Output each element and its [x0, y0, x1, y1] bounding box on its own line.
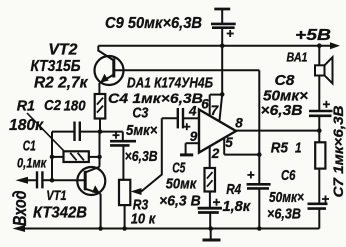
svg-text:КТ315Б: КТ315Б: [31, 58, 81, 75]
svg-text:50мк: 50мк: [166, 177, 197, 193]
svg-text:×6,3В: ×6,3В: [261, 103, 303, 119]
svg-text:С3: С3: [132, 106, 148, 122]
svg-text:R5: R5: [271, 139, 289, 156]
svg-text:R4: R4: [226, 182, 241, 198]
svg-text:0,1мк: 0,1мк: [17, 155, 47, 171]
svg-text:С7 1мк×6,3В: С7 1мк×6,3В: [331, 105, 346, 197]
svg-text:С5: С5: [172, 160, 186, 176]
svg-text:6: 6: [201, 96, 209, 111]
svg-text:VT1: VT1: [46, 187, 66, 203]
svg-text:С2: С2: [44, 97, 62, 114]
svg-text:×6,3В: ×6,3В: [267, 207, 301, 223]
svg-text:+5В: +5В: [295, 27, 331, 44]
svg-text:С1: С1: [23, 139, 36, 155]
svg-text:×6,3В: ×6,3В: [125, 149, 158, 165]
svg-text:8: 8: [235, 116, 243, 131]
svg-text:С6: С6: [281, 167, 296, 184]
svg-text:1,8к: 1,8к: [223, 199, 251, 215]
svg-text:9: 9: [190, 129, 198, 144]
svg-text:180к: 180к: [9, 117, 44, 134]
svg-text:VT2: VT2: [48, 42, 77, 59]
svg-text:10 к: 10 к: [131, 212, 156, 228]
svg-text:ВА1: ВА1: [287, 50, 308, 65]
svg-text:КТ342В: КТ342В: [33, 205, 87, 222]
svg-text:2: 2: [211, 146, 220, 161]
svg-text:С8: С8: [275, 72, 296, 89]
svg-text:5мк×: 5мк×: [126, 123, 158, 139]
svg-text:R1: R1: [17, 98, 35, 115]
svg-text:4: 4: [188, 103, 197, 118]
svg-text:50мк×: 50мк×: [269, 190, 304, 206]
svg-text:Вход: Вход: [10, 191, 30, 227]
svg-text:С9 50мк×6,3В: С9 50мк×6,3В: [105, 15, 202, 32]
svg-text:R2 2,7к: R2 2,7к: [34, 75, 89, 92]
svg-text:5: 5: [225, 135, 233, 150]
svg-text:1: 1: [295, 139, 302, 156]
svg-text:180: 180: [64, 98, 87, 115]
svg-text:×6,3 В: ×6,3 В: [159, 194, 201, 210]
